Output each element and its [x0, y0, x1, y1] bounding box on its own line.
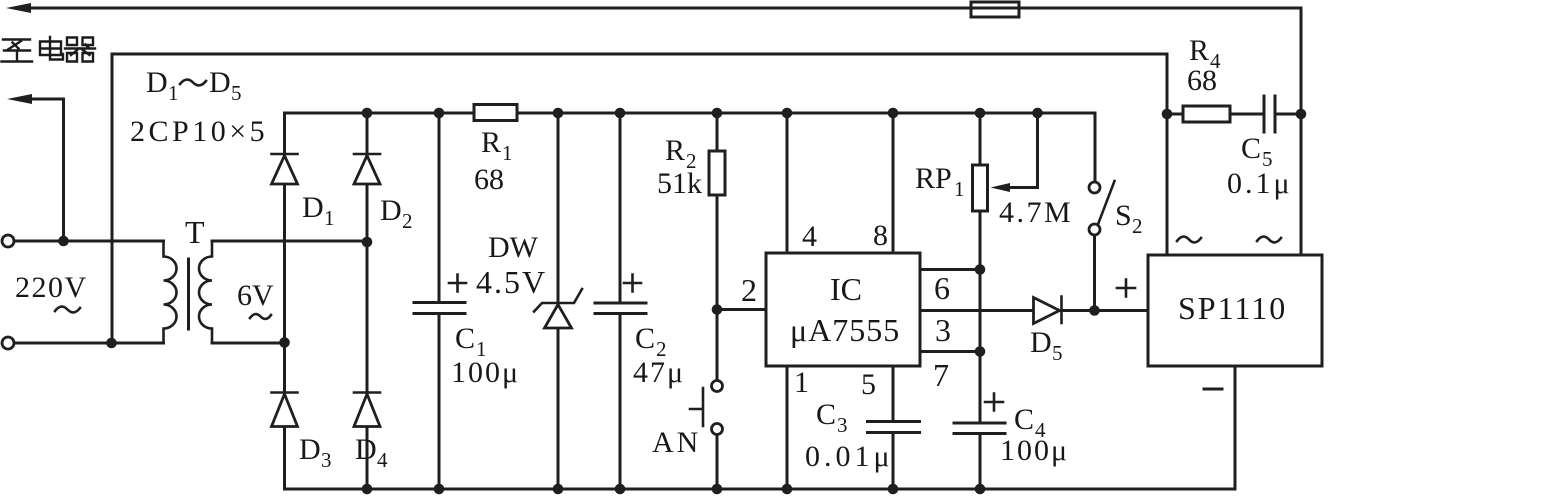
svg-text:C: C: [1014, 403, 1034, 436]
node: junction dot arrow2 on 220V top wire: [58, 236, 69, 247]
diode D4: [354, 393, 380, 427]
tilde under 6V: [250, 314, 271, 319]
svg-text:D: D: [299, 433, 321, 466]
wire: x=112 vertical mains to SP1110 feed: [111, 54, 114, 343]
svg-text:4.5V: 4.5V: [476, 264, 547, 300]
svg-text:6: 6: [934, 270, 950, 306]
terminal: mains input bottom circle: [2, 337, 14, 349]
label R1: [481, 126, 513, 165]
capacitor C5 plates: [1264, 96, 1275, 132]
svg-text:R: R: [481, 126, 501, 159]
svg-text:4: 4: [802, 220, 817, 253]
label C1: [455, 322, 487, 361]
svg-text:100μ: 100μ: [451, 356, 520, 389]
label C4: [1014, 403, 1046, 442]
svg-text:4.7M: 4.7M: [999, 196, 1073, 229]
wire: RP1 wiper branch: [1008, 113, 1038, 188]
capacitor C1 plates: [414, 303, 465, 314]
svg-text:D: D: [209, 66, 231, 99]
push button AN: [690, 381, 723, 435]
wire: R2 AN column: [716, 113, 719, 489]
label D4: [355, 433, 388, 472]
wire: arrow2 lead to mains top: [27, 99, 64, 241]
node: dot C2 top: [615, 108, 626, 119]
label RP1: [915, 162, 965, 201]
wire: main positive bus y=113: [285, 112, 475, 115]
node: junction dot right column / R4C5: [1296, 109, 1307, 120]
diode D1: [272, 154, 298, 184]
svg-text:5: 5: [1052, 341, 1063, 365]
transformer core: [187, 259, 190, 329]
svg-text:3: 3: [321, 448, 332, 472]
capacitor C4 plates: [954, 423, 1005, 434]
capacitor C3 plates: [868, 422, 920, 433]
plus sign C4: [985, 394, 1003, 411]
node: dot pin8 bus: [888, 108, 899, 119]
svg-text:D: D: [302, 191, 324, 224]
node: junction dot D2 top bus: [362, 108, 373, 119]
transformer T secondary winding: [199, 241, 212, 343]
svg-text:0.01μ: 0.01μ: [805, 440, 894, 473]
tilde AC mark right above SP1110: [1257, 237, 1281, 243]
svg-text:1: 1: [168, 81, 179, 105]
svg-text:1: 1: [794, 366, 809, 399]
wire: C5 to right column: [1275, 113, 1301, 116]
resistor R1 body: [474, 105, 517, 121]
svg-text:D: D: [1030, 326, 1052, 359]
wire: pin 7 lead: [920, 350, 980, 353]
wire: C1 column: [438, 113, 441, 489]
wire: right AC column x=1301 down to SP1110: [1300, 8, 1303, 255]
wire: C2 column: [619, 113, 622, 489]
svg-text:1: 1: [324, 206, 335, 230]
label R4: [1189, 34, 1221, 73]
wire: D2 D4 column: [366, 113, 369, 489]
svg-text:3: 3: [935, 312, 951, 348]
wire: secondary top to bridge: [212, 240, 367, 243]
node: dot C2 bottom: [615, 484, 626, 495]
resistor R4 line: [1167, 113, 1264, 116]
label C2: [635, 322, 667, 361]
svg-text:C: C: [635, 322, 655, 355]
svg-text:RP: RP: [915, 162, 952, 195]
svg-text:SP1110: SP1110: [1178, 290, 1287, 326]
label C3: [816, 398, 848, 437]
plus sign C1: [449, 275, 466, 292]
svg-text:100μ: 100μ: [1000, 434, 1069, 467]
svg-text:5: 5: [231, 81, 242, 105]
node: dot AN bottom bus: [712, 484, 723, 495]
node: dot pin4 bus: [782, 108, 793, 119]
wire: 220V top lead: [14, 240, 164, 243]
node: junction dot left column / R4C5: [1162, 109, 1173, 120]
label D1: [302, 191, 335, 230]
node: junction dot x112 on 220V bottom wire: [106, 338, 117, 349]
switch S2: [1089, 113, 1115, 311]
arrowhead: appliance output arrow 1: [6, 3, 31, 13]
svg-text:DW: DW: [488, 231, 539, 264]
resistor R2 body: [709, 151, 725, 195]
wire: bottom ground bus: [285, 488, 1236, 491]
svg-text:7: 7: [933, 357, 949, 393]
svg-text:6V: 6V: [237, 279, 274, 312]
wire: pin 6 lead: [920, 268, 980, 271]
wire: bus right of R1: [517, 112, 1095, 115]
svg-text:C: C: [455, 322, 475, 355]
transformer T primary winding: [164, 241, 177, 343]
zener diode DW: [534, 289, 582, 328]
wire: pin 4 lead: [786, 113, 789, 253]
svg-text:μA7555: μA7555: [790, 312, 900, 348]
SP1110 module box: [1148, 255, 1322, 366]
svg-text:2: 2: [402, 209, 413, 233]
wire: D1 D3 column: [283, 113, 286, 489]
arrowhead: appliance output arrow 2: [7, 94, 32, 104]
svg-text:3: 3: [837, 413, 848, 437]
svg-text:8: 8: [873, 219, 888, 252]
svg-text:220V: 220V: [15, 271, 88, 304]
svg-text:C: C: [816, 398, 836, 431]
svg-text:D: D: [355, 433, 377, 466]
node: dot DW top: [553, 108, 564, 119]
svg-text:1: 1: [954, 177, 965, 201]
svg-text:1: 1: [502, 141, 513, 165]
svg-text:IC: IC: [830, 271, 862, 307]
svg-text:47μ: 47μ: [633, 356, 685, 389]
tilde AC mark left above SP1110: [1177, 237, 1201, 243]
node: dot C1 top: [434, 108, 445, 119]
node: dot DW bottom: [553, 484, 564, 495]
svg-text:0.1μ: 0.1μ: [1227, 167, 1293, 200]
label 至电器 (to appliance) drawn strokes: [2, 37, 96, 62]
plus sign SP1110 input: [1117, 280, 1135, 297]
node: dot C3 bottom bus: [888, 484, 899, 495]
node: dot S2 output junction: [1089, 305, 1100, 316]
wire: pin 1 lead: [786, 366, 789, 489]
label D5: [1030, 326, 1063, 365]
terminal: mains input top circle: [2, 235, 14, 247]
svg-text:R: R: [1189, 34, 1209, 67]
wire: 220V bottom lead: [14, 342, 164, 345]
wire: pin 8 lead: [892, 113, 895, 253]
IC U1 uA7555 box: [766, 253, 920, 366]
wire: top appliance return line y=8: [26, 7, 1301, 10]
svg-text:T: T: [185, 214, 205, 250]
node: dot pin1 bottom bus: [782, 484, 793, 495]
wire: D5 output to SP1110 plus: [1062, 309, 1149, 312]
tilde under 220V: [55, 307, 80, 313]
plus sign C2: [624, 275, 641, 292]
wire: RP1 C4 column: [979, 113, 982, 489]
svg-text:C: C: [1241, 132, 1261, 165]
label R2: [665, 134, 697, 173]
node: dot C4 bottom bus: [975, 484, 986, 495]
diode D5: [1034, 297, 1062, 324]
node: dot D4 bottom bus: [362, 484, 373, 495]
svg-text:68: 68: [474, 163, 504, 196]
svg-text:2: 2: [741, 272, 757, 308]
svg-text:AN: AN: [652, 426, 701, 459]
label D2: [380, 194, 413, 233]
label D3: [299, 433, 332, 472]
svg-text:2: 2: [1132, 214, 1143, 238]
label C5: [1241, 132, 1273, 171]
svg-text:4: 4: [377, 448, 388, 472]
svg-text:5: 5: [861, 368, 876, 401]
svg-text:51k: 51k: [657, 167, 702, 200]
wire: DW column: [557, 113, 560, 489]
node: dot pin6 RP1 column: [975, 264, 986, 275]
label S2: [1115, 199, 1143, 238]
svg-text:D: D: [380, 194, 402, 227]
potentiometer RP1 body: [973, 165, 988, 211]
wire: pin 3 lead to D5: [920, 309, 1034, 312]
svg-text:D: D: [146, 66, 168, 99]
fuse on top line: [971, 2, 1019, 17]
wire: pin 5 C3 column: [892, 366, 895, 489]
svg-text:S: S: [1115, 199, 1132, 232]
capacitor C2 plates: [595, 303, 646, 314]
minus sign SP1110: [1204, 388, 1222, 391]
wire: pin 2 lead: [717, 308, 766, 311]
wire: SP1110 minus to ground bus: [1234, 366, 1237, 489]
wire: secondary bottom to bridge: [212, 342, 285, 345]
node: dot R2 top: [712, 108, 723, 119]
node: dot pin2 junction: [712, 304, 723, 315]
svg-text:68: 68: [1187, 64, 1217, 97]
diode D3: [272, 393, 298, 427]
resistor R4 body: [1183, 106, 1230, 122]
label D1~D5: [146, 66, 242, 105]
arrowhead: RP1 wiper: [991, 183, 1011, 192]
node: dot C1 bottom: [434, 484, 445, 495]
svg-text:R: R: [665, 134, 685, 167]
wire: left AC column x=1167 down to SP1110: [1166, 54, 1169, 255]
node: dot RP1 top bus: [975, 108, 986, 119]
svg-text:2CP10×5: 2CP10×5: [130, 115, 268, 148]
node: dot pin7 RP1 column: [975, 346, 986, 357]
node: dot wiper bus: [1032, 108, 1043, 119]
diode D2: [354, 154, 380, 184]
node: junction dot secondary bottom / D1 D3: [279, 337, 290, 348]
node: junction dot secondary top / D2 D4: [362, 237, 373, 248]
wire: second appliance feed y=54: [112, 53, 1167, 56]
